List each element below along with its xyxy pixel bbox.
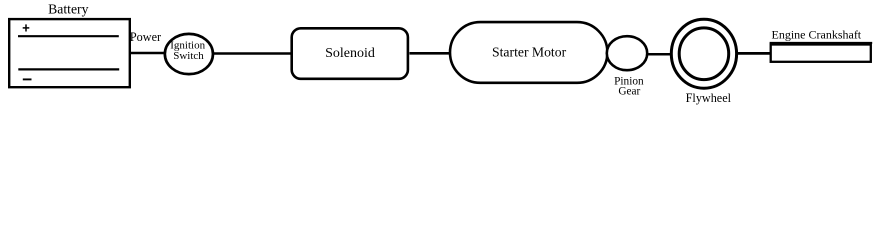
flywheel outer ring <box>671 19 736 88</box>
svg-text:Battery: Battery <box>48 2 88 17</box>
wire solenoid to starter motor <box>410 52 451 55</box>
solenoid block <box>292 28 408 79</box>
wire pinion gear to flywheel <box>647 53 671 56</box>
engine crankshaft label underline <box>770 42 873 44</box>
battery B1 box <box>9 19 130 87</box>
wire flywheel to engine crankshaft <box>737 52 771 55</box>
ignition switch ellipse <box>165 34 213 74</box>
svg-text:Flywheel: Flywheel <box>686 91 732 105</box>
flywheel inner ring <box>679 28 729 80</box>
battery bottom plate line <box>18 68 119 70</box>
svg-text:Engine Crankshaft: Engine Crankshaft <box>772 28 862 42</box>
starter motor stadium <box>450 22 607 83</box>
svg-text:Power: Power <box>130 30 161 44</box>
svg-text:Switch: Switch <box>173 50 204 62</box>
svg-text:Gear: Gear <box>618 86 640 98</box>
pinion gear circle <box>607 36 647 70</box>
engine crankshaft box <box>771 45 871 62</box>
battery top plate line <box>18 35 119 37</box>
svg-text:Solenoid: Solenoid <box>325 46 375 61</box>
wire battery to ignition switch <box>130 52 165 54</box>
battery plus terminal <box>23 24 30 31</box>
wire ignition switch to solenoid <box>213 52 293 54</box>
svg-text:Starter Motor: Starter Motor <box>492 45 567 60</box>
battery minus terminal <box>23 78 32 80</box>
